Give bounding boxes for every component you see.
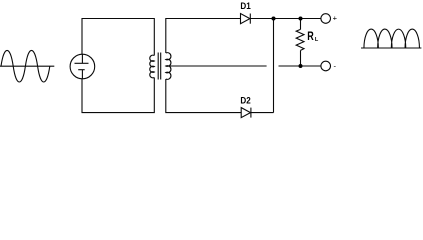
AC source internal bottom stub [81,70,83,79]
wire: D2 cathode to riser [251,112,274,114]
junction dot at D1/D2 join [272,17,276,21]
input sine waveform [1,50,50,82]
transformer core line left [157,53,159,80]
diode D1 triangle [241,14,250,24]
output terminal - circle [321,61,331,71]
svg-text:-: - [334,62,337,71]
output waveform baseline [361,47,421,49]
transformer T1 secondary winding [166,53,171,80]
transformer T1 primary winding [150,55,155,78]
wire: riser from D2 up to top rail [273,19,275,113]
resistor RL top lead [300,19,302,30]
diode D1 cathode bar [249,14,251,24]
transformer core line right [160,53,162,80]
junction dot at resistor top [299,17,303,21]
resistor RL bottom lead [300,50,302,66]
svg-text:R: R [307,30,314,44]
wire: D1 cathode to + terminal [250,18,320,20]
svg-text:D2: D2 [240,95,250,106]
resistor RL zigzag [296,29,304,50]
svg-text:D1: D1 [240,0,250,11]
AC source long plate [75,62,89,64]
wire: secondary top rail to D1 anode [166,19,241,54]
svg-text:L: L [315,37,319,43]
svg-text:+: + [333,14,338,23]
junction dot at resistor bottom [299,64,303,68]
AC source internal top stub [81,54,83,63]
wire: center tap segment right of break to - terminal [279,65,321,67]
output terminal + circle [321,14,331,24]
AC source short plate [78,69,85,71]
AC source V1 circle [70,54,95,79]
input sine waveform axis [0,65,54,67]
wire: primary loop top [82,19,154,56]
diode D2 cathode bar [250,108,252,118]
wire: secondary bottom rail to D2 anode [166,79,241,113]
wire: center tap segment left of break [168,65,267,67]
diode D2 triangle [241,108,250,118]
wire: primary loop bottom [82,78,154,113]
output waveform rectified humps [364,29,419,48]
